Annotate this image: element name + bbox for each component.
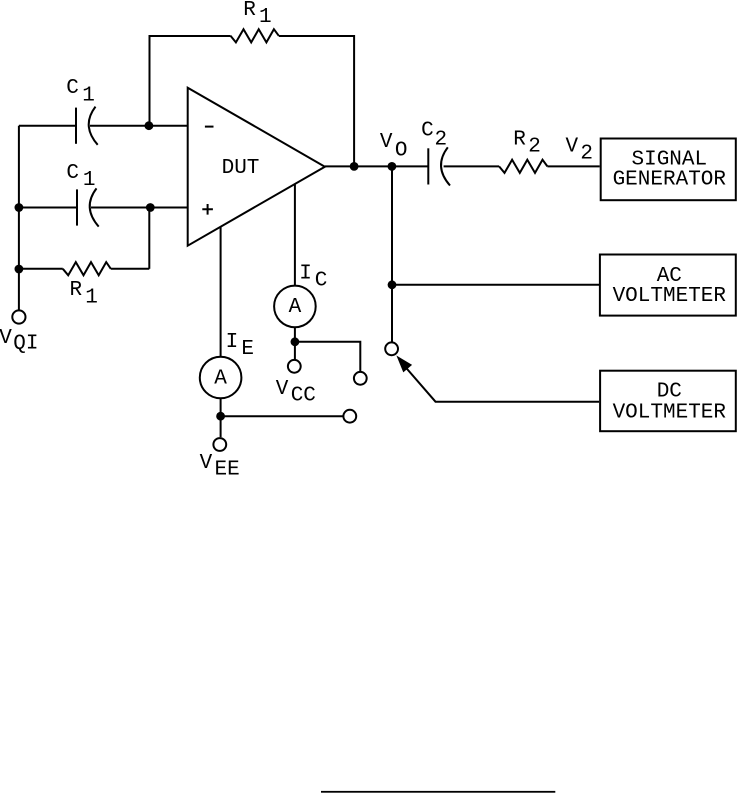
svg-text:2: 2 (528, 135, 541, 158)
svg-text:R: R (243, 0, 256, 22)
wire IC ammeter to VCC node (294, 327, 296, 360)
switch arrowhead (396, 356, 412, 373)
svg-text:C: C (66, 162, 79, 185)
terminal switch pole open circle (385, 342, 398, 355)
ammeter IE circle (200, 357, 242, 399)
svg-text:E: E (241, 338, 254, 361)
svg-text:R: R (70, 279, 83, 302)
terminal right of IC node open circle (354, 372, 367, 385)
ammeter IC circle (274, 286, 316, 328)
resistor R2 zigzag (499, 160, 547, 173)
box SIGNAL GENERATOR (601, 139, 736, 201)
svg-text:I: I (299, 262, 312, 285)
wire DUT pin to IC ammeter (294, 184, 296, 286)
svg-text:C: C (421, 119, 434, 142)
svg-text:I: I (226, 331, 239, 354)
wire IC node to right terminal (295, 342, 360, 372)
svg-text:A: A (289, 296, 302, 319)
terminal VQI open circle (12, 310, 25, 323)
wire right vertical to plus node (148, 208, 150, 269)
wire left bus vertical (18, 126, 20, 310)
capacitor C2 flat plate (427, 148, 429, 184)
svg-text:VOLTMETER: VOLTMETER (613, 285, 727, 308)
svg-text:V: V (566, 136, 579, 159)
node junction dot feedback/output (350, 162, 359, 171)
wire non-inverting input left segment (19, 207, 77, 209)
wire non-inverting input right segment (91, 207, 188, 209)
resistor R1 (top feedback) zigzag (231, 29, 279, 42)
capacitor C1 (top) curved plate (89, 107, 98, 145)
resistor R1 (bottom) zigzag (63, 262, 111, 275)
wire feedback left vertical (150, 36, 231, 126)
svg-text:GENERATOR: GENERATOR (613, 169, 727, 192)
svg-text:O: O (395, 139, 408, 162)
wire feedback right vertical (279, 36, 354, 166)
wire AC voltmeter (392, 284, 599, 286)
op-amp U1 (DUT) triangle (188, 88, 325, 246)
op-amp plus sign (202, 204, 213, 215)
node junction dot non-inverting input (146, 203, 155, 212)
svg-text:EE: EE (215, 459, 240, 482)
wire inverting input left segment (19, 125, 76, 127)
wire op-amp output (325, 165, 428, 167)
wire IE node to right terminal (221, 415, 344, 417)
node junction dot AC tap (388, 280, 397, 289)
box DC VOLTMETER (600, 371, 736, 432)
node junction dot IE/VEE (216, 412, 225, 421)
terminal right of IE node open circle (343, 410, 356, 423)
capacitor C1 (bottom) flat plate (76, 189, 78, 225)
wire C2 to R2 (444, 165, 500, 167)
capacitor C2 curved plate (441, 147, 450, 185)
wire DC voltmeter with switch blade (405, 366, 600, 402)
capacitor C1 (bottom) curved plate (90, 188, 99, 226)
node junction dot left bus upper (15, 203, 24, 212)
node junction dot inverting input (145, 121, 154, 130)
svg-text:1: 1 (83, 169, 96, 192)
svg-text:V: V (380, 131, 393, 154)
svg-text:R: R (513, 128, 526, 151)
svg-text:DC: DC (657, 381, 682, 404)
node junction dot VO (388, 162, 397, 171)
terminal VEE open circle (213, 438, 226, 451)
wire inverting input right segment (90, 125, 188, 127)
svg-text:C: C (315, 270, 328, 293)
terminal VCC open circle (288, 360, 301, 373)
svg-text:1: 1 (82, 84, 95, 107)
wire IE ammeter to VEE node (220, 398, 222, 437)
svg-text:V: V (276, 378, 289, 401)
wire bottom R1 left lead (19, 268, 63, 270)
node junction dot left bus lower (15, 265, 24, 274)
svg-text:1: 1 (85, 286, 98, 309)
svg-text:2: 2 (435, 128, 448, 151)
wire bottom R1 right lead (111, 268, 150, 270)
svg-text:1: 1 (259, 6, 272, 29)
svg-text:CC: CC (291, 384, 316, 407)
wire DUT pin to IE ammeter (220, 227, 222, 357)
svg-text:A: A (214, 367, 227, 390)
wire R2 to signal generator (547, 165, 599, 167)
svg-text:2: 2 (580, 143, 593, 166)
svg-text:V: V (200, 452, 213, 475)
svg-text:VOLTMETER: VOLTMETER (613, 401, 727, 424)
svg-text:QI: QI (13, 332, 38, 355)
svg-text:V: V (0, 327, 12, 350)
footer rule (321, 791, 555, 793)
op-amp minus sign (205, 126, 214, 128)
node junction dot IC/VCC (291, 337, 300, 346)
capacitor C1 (top) flat plate (75, 108, 77, 144)
svg-text:DUT: DUT (222, 157, 260, 180)
box AC VOLTMETER (600, 255, 736, 316)
svg-text:C: C (66, 77, 79, 100)
wire VO node vertical (391, 166, 393, 341)
